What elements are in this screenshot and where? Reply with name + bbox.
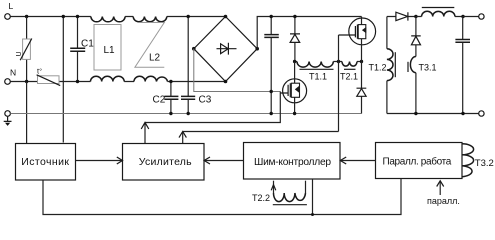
svg-text:t°: t° bbox=[37, 67, 42, 76]
wire Q1 gate riser bbox=[338, 35, 340, 132]
node bridge left vertex bbox=[192, 47, 196, 51]
svg-text:T3.1: T3.1 bbox=[419, 62, 437, 72]
freewheel diode VD4 bbox=[411, 17, 421, 57]
transformer T3.2 winding bbox=[462, 144, 494, 177]
clamp diode VD1 bbox=[290, 17, 300, 62]
svg-text:N: N bbox=[10, 68, 16, 78]
block amplifier bbox=[123, 144, 205, 181]
node bulk cap earth bbox=[270, 112, 273, 115]
node C2 bottom bbox=[169, 112, 172, 115]
node N-varistor junction bbox=[25, 80, 28, 83]
wire source bottom bus bbox=[43, 179, 401, 215]
node C1 top bbox=[76, 15, 79, 18]
transistor Q2 low-side MOSFET bbox=[280, 62, 306, 114]
wire parallel to PWM arrow bbox=[340, 157, 375, 164]
node primary left bbox=[293, 60, 296, 63]
svg-text:T2.1: T2.1 bbox=[340, 72, 358, 82]
svg-text:L2: L2 bbox=[149, 53, 161, 64]
svg-text:U: U bbox=[16, 51, 23, 56]
svg-text:Шим-контроллер: Шим-контроллер bbox=[254, 157, 331, 168]
capacitor C2 bbox=[153, 82, 179, 114]
transformer T1.1 winding bbox=[297, 62, 334, 82]
block PWM controller bbox=[244, 143, 341, 180]
node C2 top bbox=[169, 80, 172, 83]
inductor L2 core Z bbox=[135, 23, 164, 68]
node choke input bbox=[414, 15, 417, 18]
ground terminal bbox=[4, 111, 12, 126]
wire DC plus rail bbox=[257, 17, 361, 49]
capacitor C3 bbox=[181, 17, 212, 114]
svg-text:T1.2: T1.2 bbox=[369, 62, 387, 72]
wire parallel input arrow bbox=[427, 181, 460, 206]
svg-text:Усилитель: Усилитель bbox=[139, 156, 192, 168]
svg-text:C1: C1 bbox=[81, 39, 94, 50]
thermistor t bbox=[37, 67, 61, 86]
wire output plus bbox=[463, 16, 479, 18]
transformer T2.2 winding bbox=[252, 181, 307, 205]
wire primary top line bbox=[295, 61, 362, 63]
node Q2 source earth bbox=[293, 112, 296, 115]
varistor RU bbox=[16, 17, 32, 82]
wire N line bbox=[10, 81, 225, 83]
wire earth line bbox=[10, 113, 361, 115]
node bus junction bbox=[311, 213, 314, 216]
terminal output minus bbox=[479, 111, 484, 116]
inductor L2 top winding bbox=[133, 17, 167, 22]
node output cap bottom bbox=[461, 112, 464, 115]
svg-text:T1.1: T1.1 bbox=[309, 72, 327, 82]
wire source to amplifier arrow bbox=[76, 157, 123, 164]
inductor L2 bottom winding bbox=[134, 76, 168, 81]
inductor output choke bbox=[416, 8, 463, 17]
capacitor bulk filter bbox=[264, 17, 279, 114]
node C3 top bbox=[187, 15, 190, 18]
terminal output plus bbox=[479, 14, 484, 19]
capacitor output bbox=[455, 17, 470, 114]
svg-text:Паралл. работа: Паралл. работа bbox=[383, 156, 452, 168]
wire sense feedback line2 bbox=[183, 131, 339, 133]
svg-text:T2.2: T2.2 bbox=[252, 193, 270, 203]
svg-text:T3.2: T3.2 bbox=[475, 158, 494, 169]
node choke output bbox=[461, 15, 464, 18]
output diode VD3 bbox=[387, 12, 416, 20]
wire gate feedback line1 bbox=[145, 92, 280, 123]
svg-text:Источник: Источник bbox=[21, 156, 69, 168]
wire amplifier arrow1 bbox=[141, 123, 149, 144]
node primary mid bbox=[337, 60, 340, 63]
svg-text:C3: C3 bbox=[199, 95, 212, 106]
svg-text:C2: C2 bbox=[153, 95, 166, 106]
transistor Q1 high-side MOSFET bbox=[339, 17, 376, 62]
bridge rectifier diamond bbox=[194, 17, 257, 82]
wire source-block feeds bbox=[27, 17, 64, 144]
node freewheel anode bbox=[414, 112, 417, 115]
node bulk cap top bbox=[270, 15, 273, 18]
svg-text:L: L bbox=[9, 1, 14, 11]
inductor L1 core bbox=[94, 25, 121, 71]
block source bbox=[16, 144, 76, 181]
wire output minus line bbox=[387, 113, 479, 115]
wire amplifier arrow2 bbox=[179, 132, 186, 144]
transformer T3.1 winding bbox=[408, 57, 437, 114]
svg-text:L1: L1 bbox=[104, 45, 116, 56]
transformer T2.1 winding bbox=[340, 62, 358, 82]
inductor L1 bottom winding bbox=[91, 76, 125, 81]
node C3 bottom bbox=[187, 112, 190, 115]
wire PWM to amplifier arrow bbox=[204, 157, 243, 164]
node bulk cap DC minus bbox=[270, 90, 273, 93]
block parallel operation bbox=[376, 143, 463, 179]
node VD1 top bbox=[293, 15, 296, 18]
wire L rail bbox=[10, 16, 225, 18]
node L rail source feed junction bbox=[62, 15, 65, 18]
terminal L bbox=[5, 1, 14, 19]
terminal N bbox=[5, 68, 16, 85]
node bridge bottom vertex bbox=[224, 80, 228, 84]
node primary right bbox=[360, 60, 363, 63]
node C1 bottom bbox=[76, 80, 79, 83]
capacitor C1 bbox=[70, 17, 94, 82]
svg-text:паралл.: паралл. bbox=[427, 196, 460, 206]
node L-varistor junction bbox=[25, 15, 28, 18]
wire DC minus rail bbox=[194, 49, 280, 92]
node bridge right vertex bbox=[255, 47, 259, 51]
transformer T1.2 winding bbox=[369, 17, 396, 114]
node bridge top vertex bbox=[224, 15, 228, 19]
clamp diode VD2 bbox=[357, 62, 367, 114]
inductor L1 top winding bbox=[91, 17, 125, 22]
